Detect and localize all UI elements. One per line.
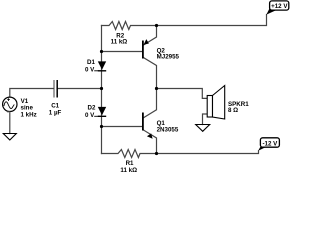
svg-text:+12 V: +12 V xyxy=(271,3,288,10)
svg-text:D1: D1 xyxy=(87,59,95,66)
svg-text:11 kΩ: 11 kΩ xyxy=(111,38,128,45)
svg-text:MJ2955: MJ2955 xyxy=(157,53,180,60)
svg-text:D2: D2 xyxy=(88,105,96,112)
svg-text:0 V: 0 V xyxy=(85,66,95,73)
svg-text:1 µF: 1 µF xyxy=(49,109,62,116)
svg-text:2N3055: 2N3055 xyxy=(157,127,179,134)
svg-text:0 V: 0 V xyxy=(85,112,95,119)
svg-text:1 kHz: 1 kHz xyxy=(21,111,37,118)
svg-text:11 kΩ: 11 kΩ xyxy=(120,167,137,174)
svg-text:C1: C1 xyxy=(51,102,59,109)
svg-text:8 Ω: 8 Ω xyxy=(228,107,238,114)
svg-text:-12 V: -12 V xyxy=(263,140,279,147)
